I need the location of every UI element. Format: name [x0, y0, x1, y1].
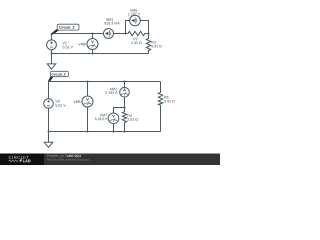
label VM9 2.297 V — [128, 9, 141, 17]
wire VM9 branch right — [140, 21, 148, 34]
voltage source V2 — [47, 40, 57, 50]
svg-text:VM8: VM8 — [78, 42, 85, 46]
wire VM5 bottom lead — [87, 107, 89, 132]
wire top rail bottom circuit — [49, 82, 161, 99]
label R5 3.91 ohm — [164, 95, 175, 103]
resistor R2 — [126, 31, 149, 35]
wire VM9 branch left — [126, 21, 130, 34]
voltmeter VM5 — [82, 96, 93, 107]
wire bottom rail bottom circuit — [49, 131, 161, 133]
svg-text:2.297 V: 2.297 V — [128, 12, 141, 16]
node C junction dot — [124, 107, 126, 109]
label V3 5.01 V — [55, 99, 66, 107]
label V2 5.51 V — [62, 41, 73, 49]
watermark bar logo area — [0, 154, 220, 166]
svg-text:http://circuitlab.com/c6sw263p: http://circuitlab.com/c6sw263pppe1t — [47, 157, 90, 161]
wire VM7 bottom lead — [113, 124, 115, 132]
svg-text:LAB: LAB — [23, 158, 31, 163]
junction dot AM2 top — [124, 81, 126, 83]
flag Circuit_2 — [50, 24, 79, 35]
junction dot VM7 bottom — [113, 131, 115, 133]
resistor R3 — [146, 34, 150, 54]
wire AM2 top lead — [124, 82, 126, 88]
voltmeter VM7 — [108, 113, 119, 124]
svg-text:2.51 Ω: 2.51 Ω — [131, 41, 142, 45]
junction dot VM5 bottom — [87, 131, 89, 133]
label R2 2.51 ohm — [131, 37, 142, 45]
svg-text:3.91 Ω: 3.91 Ω — [164, 99, 175, 103]
wire top rail left — [52, 34, 104, 40]
wire AM1 to node A — [114, 33, 126, 35]
node B junction dot — [148, 33, 150, 35]
wire VM8 bottom lead — [92, 50, 94, 54]
wire ground stub 1 — [51, 54, 53, 64]
svg-text:VM5: VM5 — [73, 100, 80, 104]
voltmeter VM8 — [87, 39, 98, 50]
junction dot VM8 top — [92, 33, 94, 35]
junction dot R4 bottom — [124, 131, 126, 133]
wire VM5 top lead — [87, 82, 89, 97]
label AM1 915.3 mA — [104, 18, 120, 26]
voltmeter VM9 — [130, 15, 141, 26]
wire VM7 branch stub — [114, 108, 125, 114]
svg-text:5.51 V: 5.51 V — [62, 45, 73, 49]
svg-text:Circuit_3: Circuit_3 — [51, 72, 65, 76]
svg-text:2.51 Ω: 2.51 Ω — [127, 118, 138, 122]
ammeter AM1 — [104, 29, 114, 39]
label VM7 5.010 V — [95, 113, 108, 121]
wire AM2 bottom lead to node C — [124, 97, 126, 108]
junction dot bottom-left — [48, 131, 50, 133]
wire left rail lower — [48, 108, 50, 131]
resistor R5 — [158, 82, 162, 132]
svg-text:Penghan_Xu / Lab1 Q3.2: Penghan_Xu / Lab1 Q3.2 — [47, 154, 82, 158]
svg-text:3.91 Ω: 3.91 Ω — [151, 44, 162, 48]
ground 2 — [44, 142, 53, 147]
ammeter AM2 — [120, 87, 130, 97]
wire V2 bottom lead — [51, 50, 53, 54]
svg-text:5.010 V: 5.010 V — [95, 117, 108, 121]
ground 1 — [47, 64, 56, 69]
label R4 2.51 ohm — [127, 114, 138, 122]
label R3 3.91 ohm — [151, 40, 162, 48]
voltage source V3 — [44, 99, 54, 109]
svg-text:5.01 V: 5.01 V — [55, 104, 66, 108]
wire VM8 top lead — [92, 34, 94, 39]
resistor R4 — [122, 108, 126, 132]
wire ground stub 2 — [48, 132, 50, 143]
flag Circuit_3 — [48, 71, 68, 81]
junction dot VM8 bottom — [92, 53, 94, 55]
svg-text:915.3 mA: 915.3 mA — [104, 21, 120, 25]
svg-text:Circuit_2: Circuit_2 — [59, 25, 76, 30]
junction dot VM5 top — [87, 81, 89, 83]
label AM2 2.193 A — [105, 87, 118, 95]
svg-text:2.193 A: 2.193 A — [105, 91, 118, 95]
node A junction dot — [125, 33, 127, 35]
wire bottom rail top circuit — [52, 53, 149, 55]
junction dot V2 bottom — [51, 53, 53, 55]
